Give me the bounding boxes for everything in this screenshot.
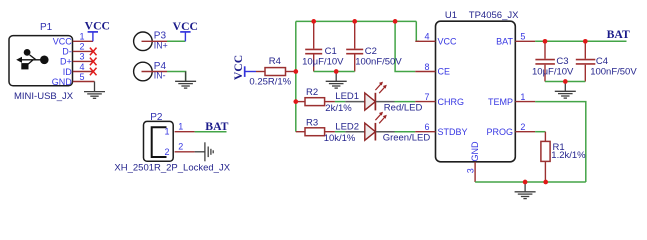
wire BAT [535,40,626,42]
wire PROG to R1 [535,131,545,133]
wire R3 to LED2 [335,131,345,133]
wire P4 to ground [167,72,186,81]
resistor R2 [296,98,335,106]
LED2 [345,123,394,141]
U1 pin 7 stub [415,101,435,103]
ground at P4 [175,72,196,89]
svg-text:10k/1%: 10k/1% [324,133,356,144]
wire TEMP to ground rail [535,102,586,182]
svg-text:R3: R3 [306,117,318,128]
svg-text:2k/1%: 2k/1% [325,103,352,114]
P1 pin numbers [80,32,85,82]
wire main vertical VCC node [295,21,297,131]
svg-text:LED1: LED1 [335,91,359,102]
P2 pin 1 stub [175,131,195,133]
junction node rail R1 [543,180,548,185]
svg-text:BAT: BAT [496,37,513,47]
junction node C1 C2 ground [334,69,339,74]
svg-text:R4: R4 [269,56,281,67]
USB icon [16,49,48,69]
wire P2 pin1 BAT [195,131,227,133]
VCC power flag at P3 [173,20,198,41]
no-connect X pin 2 [90,48,97,56]
wire C1 C2 bottom [314,71,355,73]
svg-text:2: 2 [164,147,169,157]
capacitor C1 [305,21,322,71]
junction node R4 [293,69,298,74]
svg-text:4: 4 [80,62,85,72]
svg-text:CHRG: CHRG [438,97,465,107]
svg-text:C4: C4 [596,56,608,67]
svg-text:STDBY: STDBY [438,127,468,137]
P1 pin names [52,37,73,87]
junction node rail ground [523,180,528,185]
junction node top wire CE [393,19,398,24]
svg-text:100nF/50V: 100nF/50V [355,56,402,67]
svg-text:GND: GND [470,141,480,162]
svg-text:VCC: VCC [173,20,198,33]
svg-text:1: 1 [520,92,525,102]
P1 pin 4 stub [73,71,93,73]
svg-text:XH_2501R_2P_Locked_JX: XH_2501R_2P_Locked_JX [114,162,230,173]
connector P1 body [9,36,73,86]
svg-text:VCC: VCC [85,19,110,32]
svg-text:D-: D- [62,47,72,57]
capacitor C3 [535,41,555,81]
svg-text:VCC: VCC [232,55,245,80]
svg-text:C3: C3 [556,56,568,67]
junction node C3 C4 ground [563,79,568,84]
LED1 arrows [375,82,386,94]
U1 pin 5 stub [515,40,535,42]
U1 pin numbers left [425,32,430,132]
resistor R3 [296,128,335,136]
svg-text:BAT: BAT [607,28,630,41]
svg-text:ID: ID [63,67,73,77]
U1 pin 3 stub [474,162,476,182]
P3 pin line [142,40,168,42]
svg-text:10μF/10V: 10μF/10V [302,56,344,67]
svg-text:PROG: PROG [486,127,513,137]
svg-text:MINI-USB_JX: MINI-USB_JX [14,91,74,102]
junction node R2 [293,99,298,104]
ground at C3 C4 [555,82,576,99]
svg-text:4: 4 [425,32,430,42]
svg-text:P1: P1 [40,22,53,33]
svg-text:GND: GND [52,77,73,87]
resistor R1 [541,132,550,182]
svg-text:VCC: VCC [438,37,458,47]
P1 pin 1 stub [73,40,93,42]
IC U1 TP4056 body [436,21,516,162]
svg-text:U1: U1 [445,10,457,21]
svg-text:2: 2 [520,122,525,132]
wire top horizontal [296,20,417,22]
svg-text:CE: CE [438,67,451,77]
P2 bracket [152,127,167,157]
wire LED2 to U1 STDBY [395,131,416,133]
VCC power flag at P1 [85,19,110,41]
svg-text:3: 3 [465,168,475,173]
svg-text:1.2k/1%: 1.2k/1% [551,150,586,161]
svg-text:Red/LED: Red/LED [384,103,423,114]
P2 pin numbers [178,121,183,151]
ground at C1 C2 [326,72,347,89]
svg-text:100nF/50V: 100nF/50V [590,67,637,78]
svg-text:8: 8 [425,62,430,72]
wire P3 to VCC [167,40,185,42]
junction node BAT C4 [583,39,588,44]
wire LED1 to U1 CHRG [395,101,416,103]
svg-text:Green/LED: Green/LED [383,133,431,144]
P1 pin 2 stub [73,50,93,52]
svg-text:0.25R/1%: 0.25R/1% [249,77,291,88]
resistor R4 [256,68,296,76]
junction node top wire C2 [352,19,357,24]
ground at P1 pin 5 [84,82,105,99]
connector P3 circle [134,32,153,51]
svg-text:IN+: IN+ [154,40,168,50]
P2 pin 2 stub [175,151,195,153]
connector P2 body [144,121,174,161]
svg-text:2: 2 [178,141,183,151]
U1 left pin names [438,37,468,137]
svg-text:LED2: LED2 [335,121,359,132]
U1 pin 4 stub [415,40,435,42]
svg-text:6: 6 [425,122,430,132]
svg-text:3: 3 [80,52,85,62]
svg-text:1: 1 [178,121,183,131]
U1 pin 8 stub [415,71,435,73]
svg-text:VCC: VCC [53,37,73,47]
P1 pin 3 stub [73,60,93,62]
svg-text:10μF/10V: 10μF/10V [532,67,574,78]
svg-text:5: 5 [80,72,85,82]
P4 pin line [142,71,168,73]
LED1 [345,93,394,111]
P1 pin 5 stub [73,81,95,83]
wire C3 C4 bottom [545,81,585,83]
junction node BAT C3 [543,39,548,44]
svg-text:1: 1 [80,32,85,42]
svg-text:IN-: IN- [154,71,166,81]
VCC power flag rotated left [232,55,256,80]
LED2 arrows [375,112,386,124]
svg-text:BAT: BAT [205,120,228,133]
svg-text:5: 5 [520,32,525,42]
capacitor C4 [576,41,596,81]
connector P4 circle [134,62,153,81]
ground at rail [515,182,536,199]
U1 pin numbers right [520,32,525,132]
no-connect X pin 3 [90,58,97,66]
U1 pin 2 stub [515,131,535,133]
sideways ground at P2 pin2 [195,142,214,161]
wire R2 to LED1 [335,101,345,103]
svg-text:D+: D+ [60,57,72,67]
svg-text:2: 2 [80,42,85,52]
wire drop to U1 CE pin [395,21,415,71]
capacitor C2 [346,21,363,71]
wire drop to U1 VCC pin [416,21,419,41]
svg-text:TEMP: TEMP [488,97,513,107]
wire ground rail [475,181,586,183]
U1 pin 6 stub [415,131,435,133]
svg-text:TP4056_JX: TP4056_JX [469,10,519,21]
junction node top wire C1 [311,19,316,24]
U1 right pin names [486,37,513,137]
no-connect X pin 4 [90,68,97,76]
svg-text:1: 1 [164,127,169,137]
svg-text:R2: R2 [306,87,318,98]
svg-text:7: 7 [425,92,430,102]
U1 pin 1 stub [515,101,535,103]
